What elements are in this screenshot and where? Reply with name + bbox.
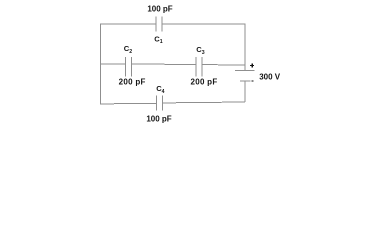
svg-text:200 pF: 200 pF xyxy=(190,77,217,86)
svg-text:C4: C4 xyxy=(156,84,164,95)
svg-text:100 pF: 100 pF xyxy=(147,5,172,14)
wire: bottom branch left segment xyxy=(101,65,157,104)
capacitor C4 plates xyxy=(155,95,157,110)
wire: top branch right segment xyxy=(162,24,245,70)
wire: middle branch left segment xyxy=(101,63,126,65)
svg-text:100 pF: 100 pF xyxy=(146,114,171,123)
svg-text:300 V: 300 V xyxy=(259,72,281,81)
wire: middle branch right segment xyxy=(202,64,245,67)
battery bottom plate (-) xyxy=(240,80,251,82)
svg-text:200 pF: 200 pF xyxy=(119,77,146,86)
svg-text:C3: C3 xyxy=(196,45,204,56)
wire: top branch left segment xyxy=(101,24,156,65)
battery top plate (+) xyxy=(235,70,255,72)
label + (battery positive) xyxy=(250,64,254,68)
wire: bottom branch right segment xyxy=(162,101,245,104)
wire: middle branch centre segment xyxy=(132,63,197,65)
capacitor C2 plates xyxy=(124,57,126,77)
capacitor C3 plates xyxy=(195,57,197,77)
label - (battery negative) xyxy=(251,80,253,82)
capacitor C1 plates xyxy=(155,17,157,32)
wire: battery negative lead xyxy=(244,82,246,102)
svg-text:C1: C1 xyxy=(154,35,162,46)
svg-text:C2: C2 xyxy=(124,44,132,55)
